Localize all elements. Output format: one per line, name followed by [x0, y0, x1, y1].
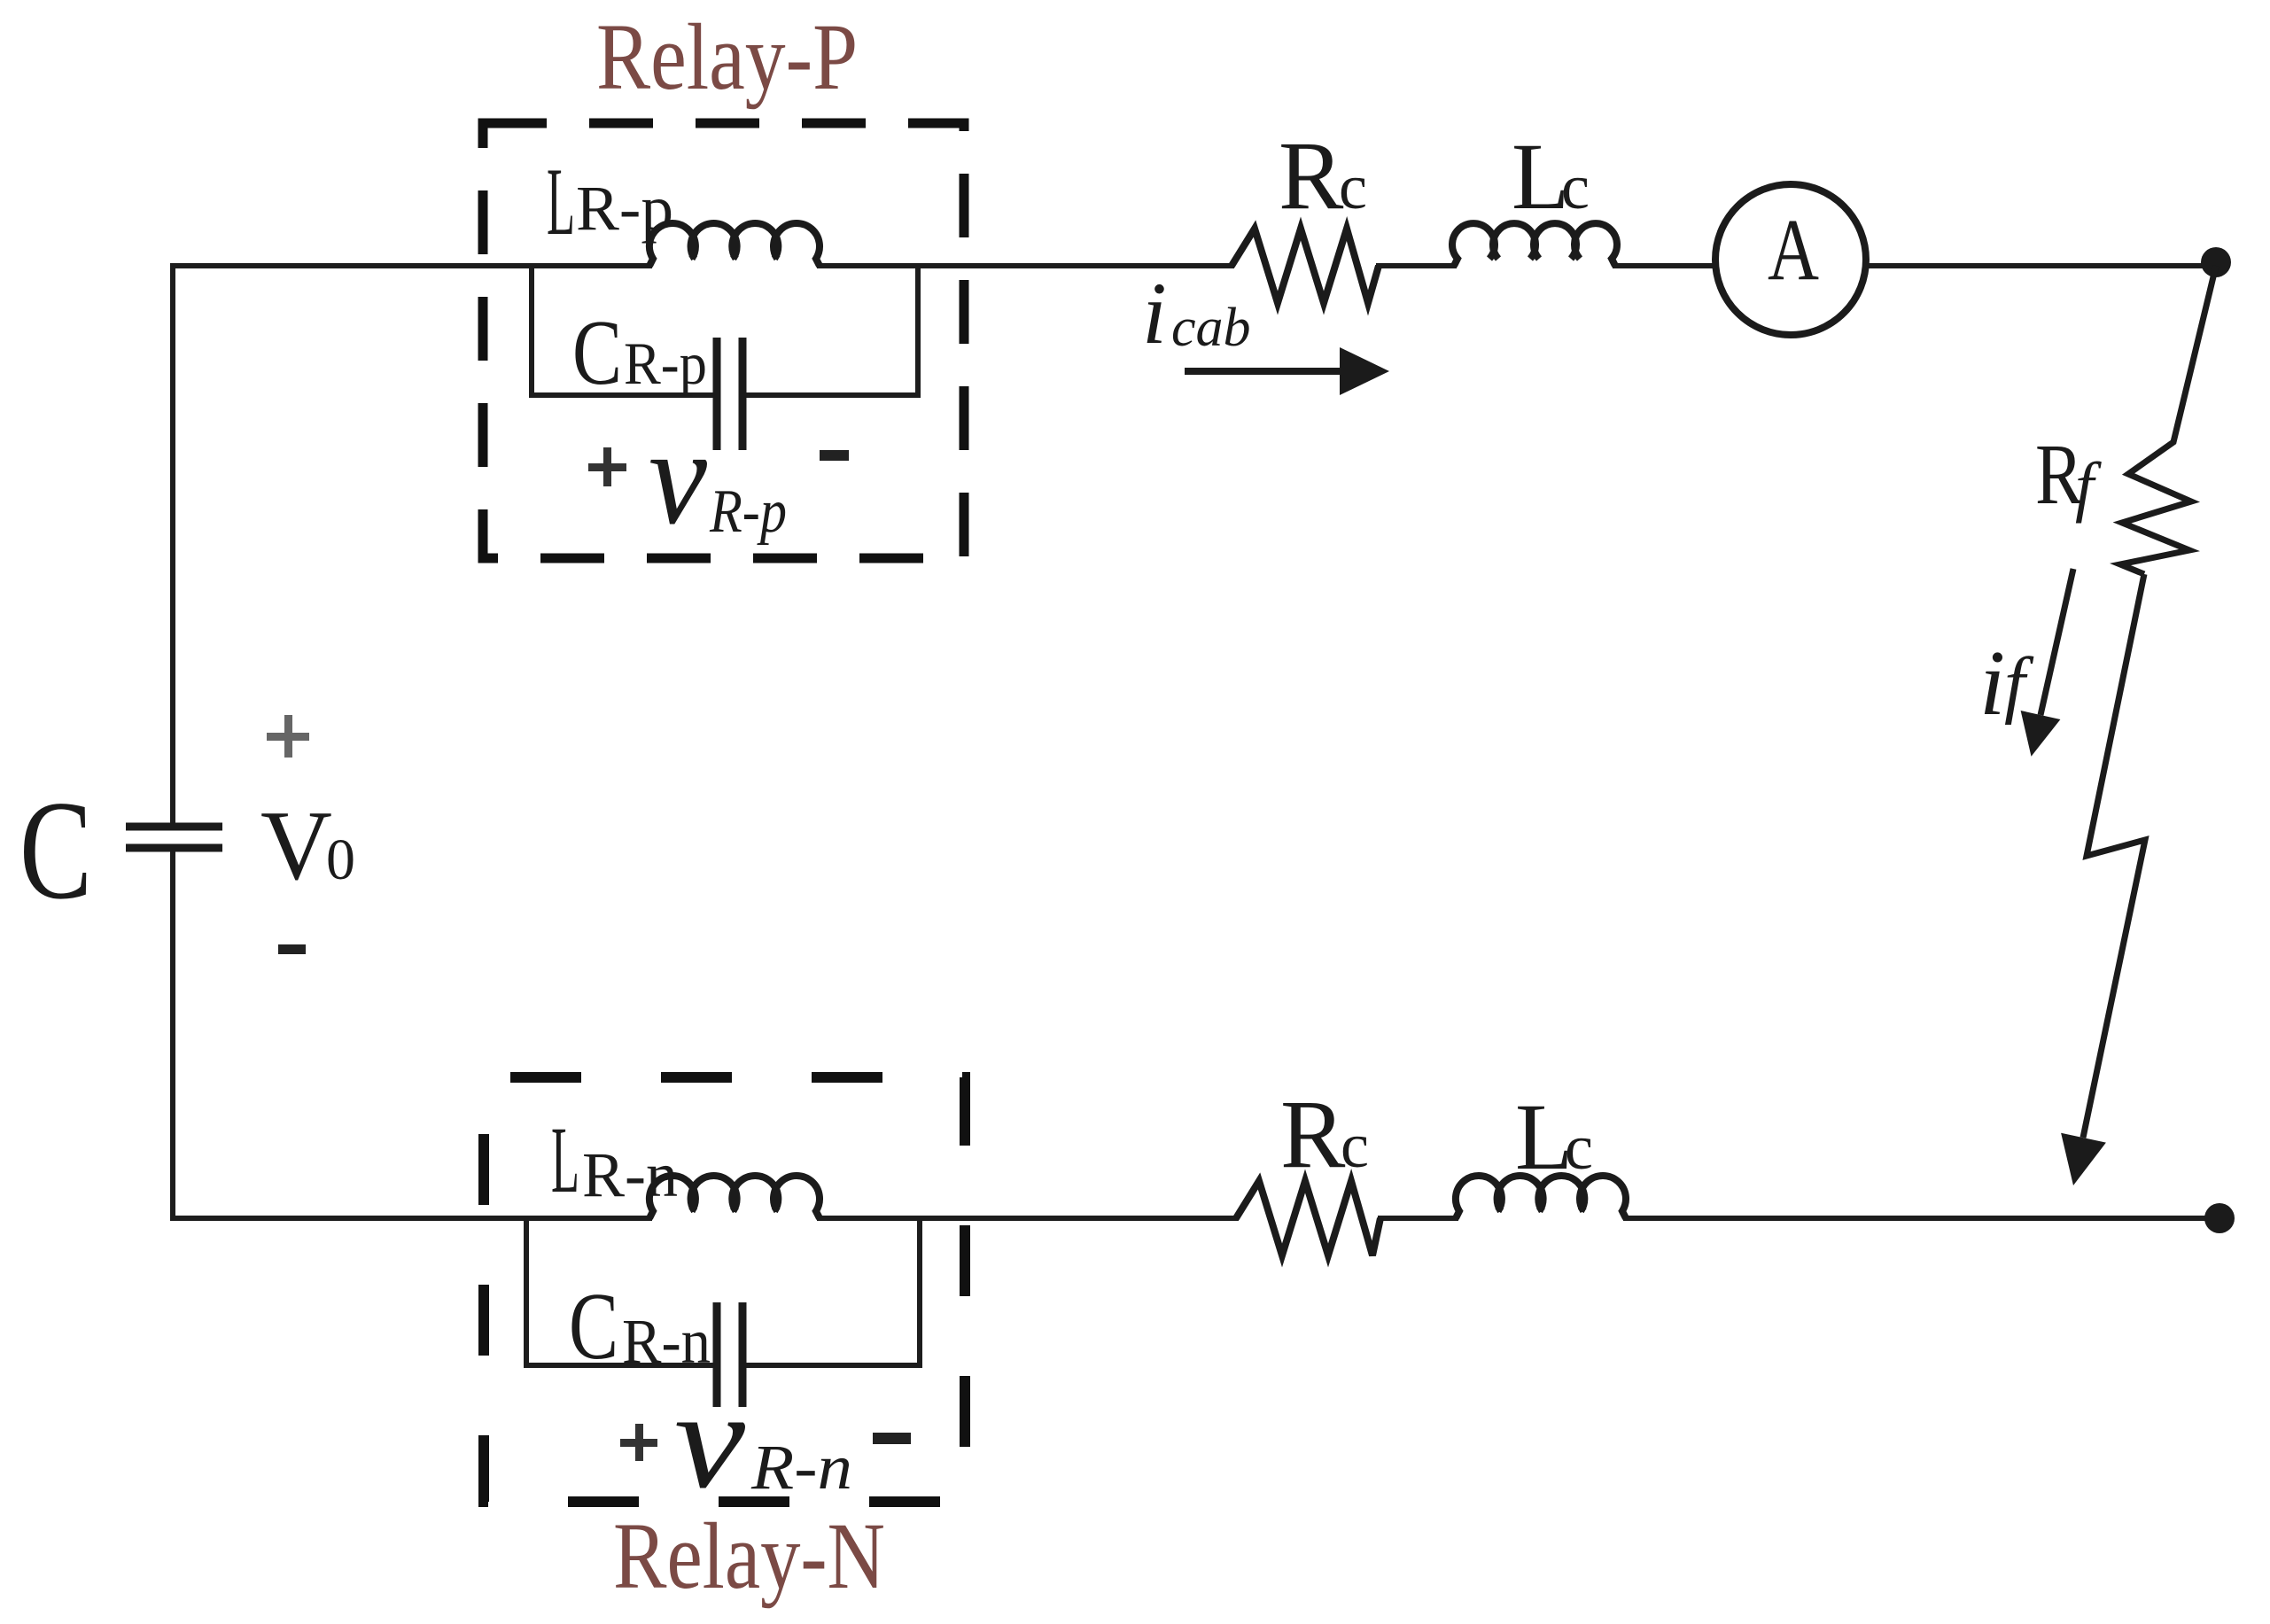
svg-text:Relay-P: Relay-P	[596, 5, 858, 110]
node top junction dot	[2201, 247, 2231, 277]
svg-text:cab: cab	[1171, 298, 1251, 358]
svg-text:0: 0	[326, 828, 355, 892]
node minus sign V0	[278, 944, 306, 954]
relay-P dashed box	[483, 123, 964, 558]
wire bottom bus left segment	[173, 1216, 649, 1221]
svg-text:c: c	[1561, 152, 1590, 222]
svg-text:C: C	[572, 300, 622, 404]
svg-text:R-n: R-n	[582, 1139, 678, 1210]
svg-text:A: A	[1768, 200, 1819, 299]
wire top bus segment between Rc and Lc	[1379, 263, 1454, 268]
plus sign vR-p	[588, 447, 626, 486]
if current arrow	[2041, 569, 2073, 715]
node bottom junction dot	[2204, 1203, 2235, 1233]
svg-text:c: c	[1341, 1110, 1369, 1181]
svg-text:v: v	[674, 1363, 746, 1518]
capacitor CR-n plates	[717, 1302, 742, 1407]
inductor Lc bottom coil	[1456, 1176, 1626, 1218]
svg-text:c: c	[1339, 152, 1367, 222]
ammeter U1	[1715, 184, 1866, 335]
svg-text:C: C	[569, 1274, 618, 1379]
relay-N dashed box	[484, 1077, 965, 1502]
node plus sign V0	[267, 715, 309, 758]
capacitor CR-p plates	[717, 338, 742, 450]
capacitor C plates	[126, 827, 222, 848]
fault bolt wire	[2083, 574, 2145, 1138]
wire top bus segment Lc to node	[1615, 263, 2216, 268]
svg-text:v: v	[649, 400, 707, 553]
plus sign vR-n	[620, 1424, 657, 1461]
wire left vertical lower	[170, 848, 175, 1218]
wire top bus left segment	[173, 263, 649, 268]
resistor Rc bottom zigzag	[1236, 1181, 1380, 1255]
svg-text:R-n: R-n	[750, 1432, 852, 1503]
svg-text:R-p: R-p	[624, 330, 707, 397]
inductor LR-n coil	[649, 1176, 820, 1218]
svg-text:i: i	[1979, 631, 2005, 734]
svg-text:V: V	[260, 791, 332, 901]
svg-text:R: R	[1280, 1080, 1346, 1188]
svg-text:Relay-N: Relay-N	[613, 1504, 885, 1609]
inductor Lc top coil	[1452, 223, 1617, 266]
svg-text:R-p: R-p	[709, 478, 787, 546]
resistor Rf zigzag branch	[2120, 266, 2216, 574]
svg-text:R: R	[1279, 121, 1344, 229]
svg-text:c: c	[1565, 1112, 1593, 1183]
wire bottom bus segment Lc to node	[1626, 1216, 2219, 1221]
wire left vertical upper	[170, 266, 175, 827]
fault bolt arrowhead	[2061, 1133, 2106, 1185]
minus sign vR-n	[873, 1433, 911, 1444]
svg-text:L: L	[551, 1108, 579, 1213]
wire parallel branch relay-N left vertical	[526, 1218, 713, 1365]
wire parallel branch relay-P left vertical	[532, 266, 713, 395]
wire parallel branch relay-N right vertical	[746, 1218, 920, 1365]
svg-text:L: L	[547, 148, 575, 255]
resistor Rc top zigzag	[1232, 229, 1379, 303]
svg-text:C: C	[19, 771, 92, 929]
icab current arrow	[1185, 368, 1341, 375]
wire parallel branch relay-P right vertical	[746, 266, 918, 395]
minus sign vR-p	[820, 450, 849, 461]
wire bottom bus middle segment	[820, 1216, 1236, 1221]
inductor LR-p coil	[649, 223, 820, 266]
svg-text:i: i	[1142, 264, 1167, 362]
wire top bus middle segment	[820, 263, 1232, 268]
wire bottom bus segment between Rc and Lc	[1380, 1216, 1456, 1221]
svg-text:R-p: R-p	[576, 173, 673, 244]
